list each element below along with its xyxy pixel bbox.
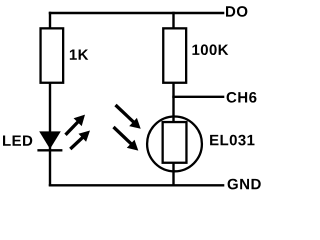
LED triangle: [39, 131, 61, 149]
arrow light out 2: [70, 131, 90, 150]
resistor R1 1K: [41, 28, 64, 82]
label LED: [3, 135, 32, 145]
label 1K: [70, 49, 88, 59]
wire bottom rail to GND: [49, 184, 225, 186]
arrow light out 1: [66, 115, 86, 135]
resistor R2 100K: [163, 28, 186, 82]
label GND: [228, 179, 261, 190]
label DO: [226, 6, 247, 17]
label EL031: [210, 135, 254, 146]
LED cathode bar: [37, 149, 62, 151]
wire left branch vertical: [49, 12, 51, 187]
label CH6: [227, 92, 257, 103]
wire CH6 stub: [172, 96, 224, 98]
arrow light in 1: [116, 105, 141, 129]
photoresistor EL031 body: [163, 122, 187, 163]
wire right branch vertical: [172, 12, 174, 187]
arrow light in 2: [114, 127, 139, 151]
label 100K: [192, 44, 228, 55]
photoresistor EL031 circle: [147, 116, 202, 171]
wire top rail to DO: [49, 12, 225, 14]
